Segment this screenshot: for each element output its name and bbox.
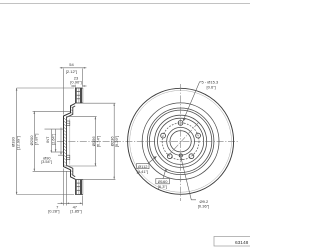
dim 23 top <box>71 85 87 88</box>
top border <box>0 3 250 5</box>
chamfer circle <box>130 90 232 192</box>
svg-text:63148: 63148 <box>235 240 249 246</box>
svg-text:[9.29"]: [9.29"] <box>114 136 119 147</box>
section flange bolt hole bottom <box>67 155 70 160</box>
centerline horizontal <box>57 140 239 142</box>
front view vertical centerline <box>180 84 182 201</box>
svg-text:[2.64"]: [2.64"] <box>51 134 55 145</box>
svg-text:[1.85"]: [1.85"] <box>70 208 81 213</box>
outer circle <box>128 88 234 194</box>
dim 54 top <box>60 67 87 115</box>
svg-text:[3.54"]: [3.54"] <box>41 160 52 164</box>
svg-text:[6.14"]: [6.14"] <box>96 136 101 147</box>
bolt circle dashed <box>162 123 199 160</box>
section friction ring top <box>75 88 83 103</box>
dim D67 INT left <box>45 129 64 153</box>
section flange bolt hole top <box>67 121 70 126</box>
svg-text:[0.6"]: [0.6"] <box>207 84 216 89</box>
label 5-D15.3 <box>183 82 201 121</box>
svg-text:[0.90"]: [0.90"] <box>70 80 81 85</box>
circle D200 <box>149 110 211 172</box>
circle D207 <box>147 108 214 175</box>
circle D236 <box>142 103 219 180</box>
dim D156 right of section <box>66 117 97 166</box>
svg-text:[12.99"]: [12.99"] <box>16 136 21 150</box>
dim D200 left <box>33 111 70 171</box>
center bore D67 <box>170 131 191 152</box>
drum interior line <box>69 119 71 165</box>
svg-text:[0.36"]: [0.36"] <box>198 203 209 208</box>
dim 7 bottom <box>58 169 67 206</box>
circle D144 <box>158 118 204 164</box>
circle D90 <box>167 127 195 155</box>
svg-text:[6.3"]: [6.3"] <box>158 184 167 189</box>
svg-text:[4.41"]: [4.41"] <box>137 169 148 174</box>
svg-text:[0.28"]: [0.28"] <box>48 208 59 213</box>
label D112 boxed <box>137 156 157 168</box>
svg-text:[7.87"]: [7.87"] <box>34 134 39 145</box>
section friction ring bottom <box>75 180 83 195</box>
front view diagonal centerline <box>168 123 199 157</box>
dim 47 bottom <box>67 196 83 206</box>
svg-text:[2.12"]: [2.12"] <box>66 69 77 74</box>
title block <box>214 237 251 247</box>
svg-text:INT: INT <box>46 136 50 143</box>
svg-text:54: 54 <box>69 62 74 67</box>
dim D330 left <box>16 88 74 195</box>
dim D236 right of section <box>76 103 115 179</box>
section hat wall outer <box>64 103 76 179</box>
bolt holes <box>161 121 201 159</box>
label D160 boxed <box>156 169 170 184</box>
hat wall hatching <box>64 118 66 120</box>
section hat wall inner <box>67 106 76 177</box>
label D9.2 <box>181 158 197 200</box>
set screw hole <box>179 154 182 157</box>
dim D90 label <box>55 128 64 156</box>
front view <box>128 88 234 194</box>
circle D160 <box>155 115 207 167</box>
